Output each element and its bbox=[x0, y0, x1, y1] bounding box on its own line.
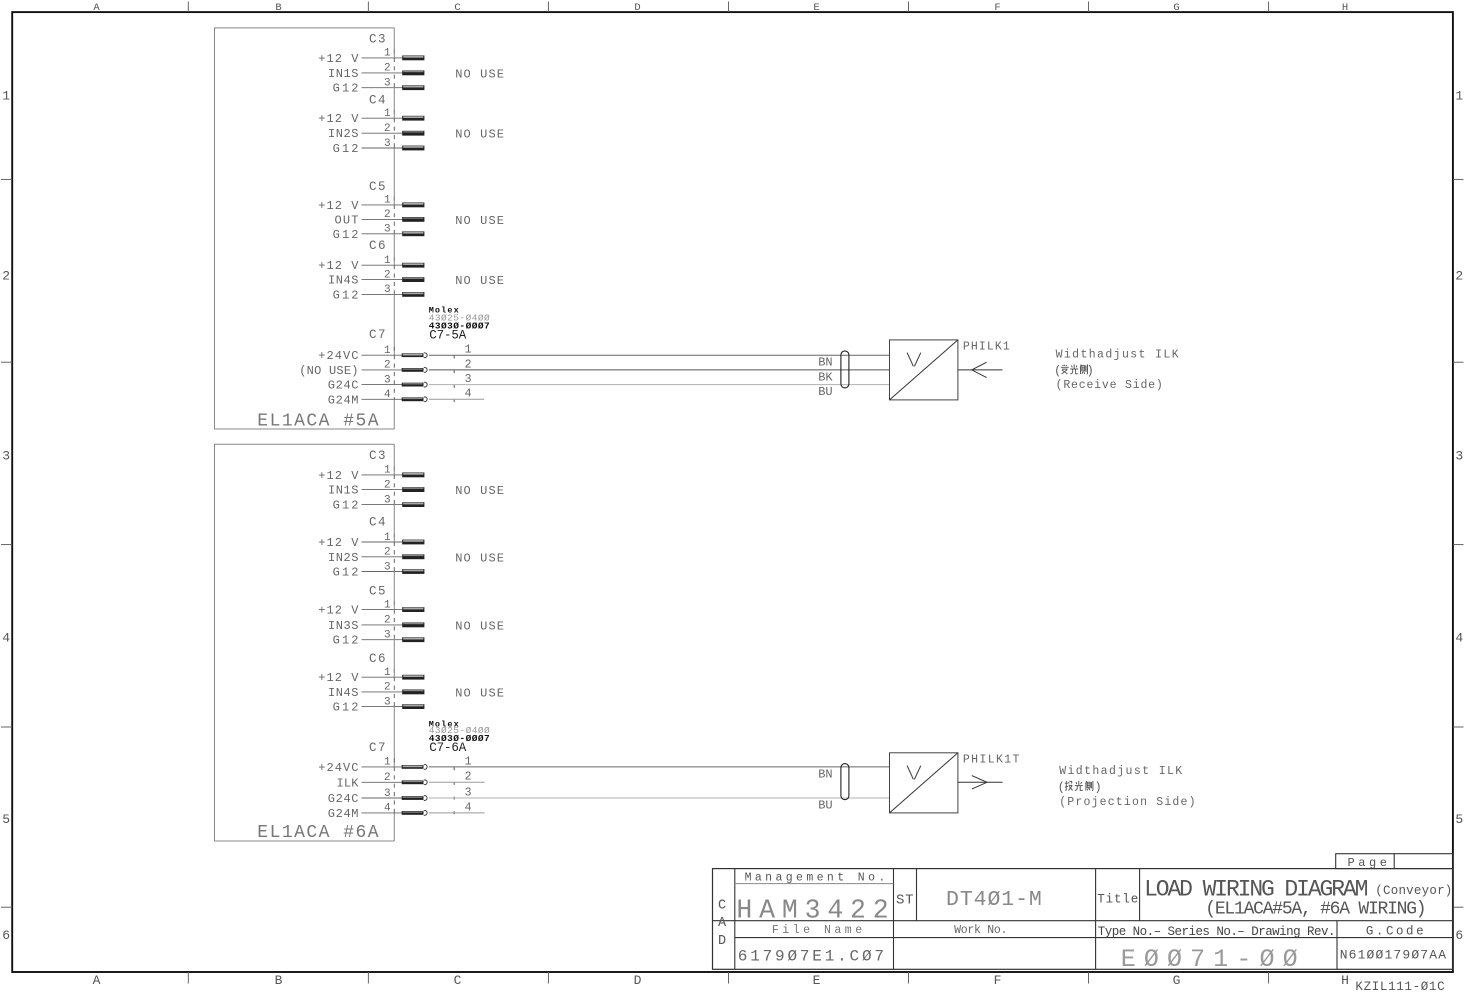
svg-text:ILK: ILK bbox=[337, 776, 360, 790]
EL1ACA#6A C7 pin 4 crimp terminal bbox=[402, 811, 424, 815]
svg-text:2: 2 bbox=[465, 771, 472, 784]
wire EL1ACA#5A C5 pin 3 bbox=[362, 233, 404, 235]
svg-text:D: D bbox=[634, 973, 642, 988]
wire EL1ACA#6A C7 pin 2 internal bbox=[362, 781, 403, 783]
svg-text:IN4S: IN4S bbox=[328, 686, 359, 700]
svg-text:KZIL111-Ø1C: KZIL111-Ø1C bbox=[1355, 980, 1444, 992]
svg-text:+12 V: +12 V bbox=[318, 671, 359, 685]
page box bbox=[1336, 854, 1453, 869]
svg-text:4: 4 bbox=[2, 631, 10, 646]
light beam arrow (Projection Side) bbox=[958, 776, 1003, 790]
wire C7-6A pin 3 bbox=[429, 797, 890, 799]
svg-text:HAM3422: HAM3422 bbox=[736, 896, 888, 926]
C7 device-side dashed edge bbox=[393, 347, 395, 400]
wire EL1ACA#6A C3 pin 2 bbox=[362, 489, 404, 491]
wire EL1ACA#5A C4 pin 2 bbox=[362, 132, 404, 134]
svg-text:(NO USE): (NO USE) bbox=[299, 364, 358, 378]
EL1ACA#5A C7 pin 4 crimp socket bbox=[424, 397, 427, 402]
svg-text:C7: C7 bbox=[369, 328, 386, 342]
svg-text:G: G bbox=[1173, 2, 1179, 14]
svg-text:+12 V: +12 V bbox=[318, 199, 359, 213]
title block grid bbox=[713, 869, 1453, 970]
svg-text:C4: C4 bbox=[369, 516, 386, 530]
EL1ACA#5A C7 pin 3 crimp terminal bbox=[402, 383, 424, 387]
wire EL1ACA#5A C5 pin 2 bbox=[362, 218, 404, 220]
svg-text:B: B bbox=[275, 2, 281, 14]
EL1ACA#5A C7 pin 2 crimp terminal bbox=[402, 368, 424, 372]
svg-text:G12: G12 bbox=[333, 142, 359, 156]
EL1ACA#5A C7 pin 4 crimp terminal bbox=[402, 397, 424, 401]
svg-text:G24M: G24M bbox=[328, 807, 359, 821]
wire EL1ACA#6A C4 pin 1 bbox=[362, 541, 404, 543]
svg-text:C3: C3 bbox=[369, 32, 386, 46]
light beam arrow (Receive Side) bbox=[958, 362, 1003, 377]
wire EL1ACA#6A C5 pin 1 bbox=[362, 609, 404, 611]
C4 connector dashed edge bbox=[393, 110, 395, 149]
wire EL1ACA#6A C7 pin 3 internal bbox=[362, 797, 403, 799]
svg-text:+24VC: +24VC bbox=[318, 761, 358, 775]
svg-text:3: 3 bbox=[465, 786, 472, 799]
EL1ACA#5A C3 pin 2 terminal pad bbox=[402, 71, 424, 76]
svg-text:C7-5A: C7-5A bbox=[429, 329, 466, 343]
svg-text:H: H bbox=[1342, 2, 1348, 14]
svg-text:NO USE: NO USE bbox=[455, 551, 504, 565]
svg-text:G12: G12 bbox=[333, 228, 359, 242]
EL1ACA#6A C7 pin 2 crimp terminal bbox=[402, 780, 424, 784]
svg-text:+12 V: +12 V bbox=[318, 469, 359, 483]
svg-text:C6: C6 bbox=[369, 239, 386, 253]
EL1ACA#6A C7 pin 3 crimp socket bbox=[424, 796, 427, 801]
wire EL1ACA#5A C7 pin 3 internal bbox=[362, 384, 403, 386]
svg-text:(: ( bbox=[1054, 365, 1061, 378]
svg-text:BK: BK bbox=[818, 370, 833, 384]
wire EL1ACA#6A C7 pin 1 internal bbox=[362, 766, 403, 768]
left row tick marks bbox=[1, 179, 12, 907]
svg-text:C: C bbox=[454, 973, 462, 988]
EL1ACA#6A C5 pin 1 terminal pad bbox=[402, 607, 424, 612]
svg-text:Type No.– Series No.– Drawing: Type No.– Series No.– Drawing Rev. bbox=[1098, 925, 1336, 939]
svg-text:3: 3 bbox=[2, 449, 10, 464]
svg-text:+12 V: +12 V bbox=[318, 604, 359, 618]
svg-text:D: D bbox=[634, 2, 640, 14]
svg-text:NO USE: NO USE bbox=[455, 686, 504, 700]
photo sensor PHILK1 V mark bbox=[907, 353, 921, 367]
svg-text:1: 1 bbox=[1455, 88, 1463, 103]
svg-text:F: F bbox=[994, 2, 1000, 14]
wire EL1ACA#6A C6 pin 1 bbox=[362, 676, 404, 678]
svg-text:1: 1 bbox=[2, 88, 10, 103]
svg-text:6: 6 bbox=[2, 928, 10, 943]
svg-text:C7: C7 bbox=[369, 741, 386, 755]
cable connector C7-6A dashed line bbox=[453, 767, 455, 816]
C7 device-side dashed edge bbox=[393, 758, 395, 813]
EL1ACA#5A C7 pin 1 crimp socket bbox=[424, 353, 427, 358]
svg-text:NO USE: NO USE bbox=[455, 484, 504, 498]
bottom column letters A-H bbox=[93, 973, 1349, 988]
svg-text:H: H bbox=[1341, 973, 1349, 988]
svg-text:C: C bbox=[454, 2, 460, 14]
svg-text:NO USE: NO USE bbox=[455, 214, 504, 228]
svg-text:N61ØØ179Ø7AA: N61ØØ179Ø7AA bbox=[1340, 948, 1446, 963]
svg-text:B: B bbox=[275, 973, 283, 988]
svg-text:A: A bbox=[93, 973, 101, 988]
left row numbers 1-6 bbox=[2, 88, 10, 943]
svg-text:G12: G12 bbox=[333, 499, 359, 513]
svg-text:D: D bbox=[718, 934, 726, 949]
C3 connector dashed edge bbox=[393, 466, 395, 505]
svg-text:LOAD WIRING DIAGRAM: LOAD WIRING DIAGRAM bbox=[1144, 876, 1368, 902]
EL1ACA#5A C7 pin 1 crimp terminal bbox=[402, 353, 424, 357]
wire EL1ACA#6A C6 pin 2 bbox=[362, 691, 404, 693]
EL1ACA#6A C3 pin 3 terminal pad bbox=[402, 502, 424, 507]
wire EL1ACA#6A C7 pin 4 internal bbox=[362, 812, 403, 814]
EL1ACA#5A C3 pin 1 terminal pad bbox=[402, 56, 424, 61]
svg-text:G12: G12 bbox=[333, 634, 359, 648]
svg-text:(Projection Side): (Projection Side) bbox=[1059, 796, 1195, 809]
cable connector C7-5A dashed line bbox=[453, 356, 455, 403]
EL1ACA#6A C5 pin 3 terminal pad bbox=[402, 637, 424, 642]
svg-text:C7-6A: C7-6A bbox=[429, 741, 466, 755]
EL1ACA#5A C6 pin 2 terminal pad bbox=[402, 277, 424, 282]
svg-text:): ) bbox=[1095, 781, 1102, 794]
wire EL1ACA#6A C5 pin 3 bbox=[362, 639, 404, 641]
svg-text:F: F bbox=[994, 973, 1002, 988]
svg-text:NO USE: NO USE bbox=[455, 67, 504, 81]
svg-text:5: 5 bbox=[1455, 812, 1463, 827]
wire EL1ACA#6A C3 pin 1 bbox=[362, 474, 404, 476]
EL1ACA#6A C7 pin 3 crimp terminal bbox=[402, 796, 424, 800]
EL1ACA#6A C3 pin 1 terminal pad bbox=[402, 473, 424, 478]
device EL1ACA #6A outline bbox=[215, 444, 395, 841]
svg-text:IN4S: IN4S bbox=[328, 274, 359, 288]
wire EL1ACA#6A C4 pin 3 bbox=[362, 571, 404, 573]
EL1ACA#6A C6 pin 1 terminal pad bbox=[402, 675, 424, 680]
svg-text:IN2S: IN2S bbox=[328, 551, 359, 565]
svg-text:Work No.: Work No. bbox=[954, 924, 1007, 937]
EL1ACA#5A C5 pin 3 terminal pad bbox=[402, 231, 424, 236]
wire EL1ACA#5A C3 pin 1 bbox=[362, 57, 404, 59]
EL1ACA#6A C4 pin 2 terminal pad bbox=[402, 554, 424, 559]
svg-text:Widthadjust ILK: Widthadjust ILK bbox=[1056, 349, 1179, 362]
EL1ACA#5A C6 pin 3 terminal pad bbox=[402, 292, 424, 297]
svg-text:G24C: G24C bbox=[328, 792, 359, 806]
svg-text:G12: G12 bbox=[333, 288, 359, 302]
EL1ACA#5A C4 pin 1 terminal pad bbox=[402, 116, 424, 121]
EL1ACA#5A C4 pin 3 terminal pad bbox=[402, 146, 424, 151]
svg-text:+12 V: +12 V bbox=[318, 112, 359, 126]
svg-text:(Conveyor): (Conveyor) bbox=[1375, 884, 1452, 898]
svg-text:2: 2 bbox=[2, 269, 10, 284]
svg-text:C5: C5 bbox=[369, 180, 386, 194]
svg-text:4: 4 bbox=[465, 801, 472, 814]
svg-text:+24VC: +24VC bbox=[318, 349, 358, 363]
EL1ACA#5A C7 pin 2 crimp socket bbox=[424, 368, 427, 373]
C6 connector dashed edge bbox=[393, 669, 395, 707]
svg-text:C3: C3 bbox=[369, 449, 386, 463]
EL1ACA#6A C7 pin 1 crimp terminal bbox=[402, 765, 424, 769]
photo sensor PHILK1 diagonal bbox=[890, 340, 958, 400]
svg-text:ST: ST bbox=[896, 893, 914, 909]
svg-text:6: 6 bbox=[1455, 928, 1463, 943]
wire C7-6A pin 1 bbox=[429, 766, 890, 768]
caption japanese (Projection Side) bbox=[1058, 781, 1102, 794]
device EL1ACA #5A outline bbox=[215, 28, 395, 429]
device EL1ACA #5A right edge segments bbox=[393, 28, 395, 429]
svg-text:6179Ø7E1.CØ7: 6179Ø7E1.CØ7 bbox=[738, 947, 884, 965]
wire EL1ACA#5A C6 pin 1 bbox=[362, 264, 404, 266]
svg-text:(EL1ACA#5A, #6A WIRING): (EL1ACA#5A, #6A WIRING) bbox=[1205, 899, 1426, 919]
wire EL1ACA#5A C4 pin 1 bbox=[362, 117, 404, 119]
EL1ACA#6A C7 pin 4 crimp socket bbox=[424, 811, 427, 816]
svg-text:C: C bbox=[718, 898, 726, 913]
svg-text:4: 4 bbox=[465, 388, 472, 401]
wire C7-5A pin 3 bbox=[429, 384, 890, 386]
wire EL1ACA#6A C6 pin 3 bbox=[362, 706, 404, 708]
wire EL1ACA#6A C5 pin 2 bbox=[362, 624, 404, 626]
EL1ACA#5A C6 pin 1 terminal pad bbox=[402, 263, 424, 268]
svg-text:G.Code: G.Code bbox=[1366, 924, 1424, 938]
wire C7-6A pin 4 bbox=[429, 812, 485, 814]
svg-text:G24C: G24C bbox=[328, 379, 359, 393]
EL1ACA#6A C4 pin 1 terminal pad bbox=[402, 540, 424, 545]
svg-text:1: 1 bbox=[465, 755, 472, 768]
svg-text:BN: BN bbox=[818, 767, 832, 781]
svg-text:BU: BU bbox=[818, 385, 832, 399]
EL1ACA#5A C5 pin 2 terminal pad bbox=[402, 217, 424, 222]
wire EL1ACA#5A C7 pin 2 internal bbox=[362, 369, 403, 371]
top column letters A-H bbox=[93, 2, 1348, 14]
svg-text:5: 5 bbox=[2, 812, 10, 827]
wire EL1ACA#6A C3 pin 3 bbox=[362, 504, 404, 506]
svg-text:BN: BN bbox=[818, 356, 832, 370]
photo sensor PHILK1T diagonal bbox=[890, 753, 958, 813]
svg-text:File Name: File Name bbox=[772, 924, 862, 937]
svg-text:1: 1 bbox=[465, 344, 472, 357]
wire C7-5A pin 1 bbox=[429, 354, 890, 356]
C6 connector dashed edge bbox=[393, 257, 395, 295]
wire EL1ACA#5A C3 pin 2 bbox=[362, 72, 404, 74]
EL1ACA#6A C3 pin 2 terminal pad bbox=[402, 487, 424, 492]
svg-text:(: ( bbox=[1058, 781, 1065, 794]
svg-text:A: A bbox=[93, 2, 100, 14]
svg-text:OUT: OUT bbox=[335, 213, 359, 227]
svg-text:G12: G12 bbox=[333, 82, 359, 96]
CAD vertical label bbox=[718, 898, 727, 949]
svg-text:EL1ACA #6A: EL1ACA #6A bbox=[257, 823, 378, 843]
svg-text:Title: Title bbox=[1097, 892, 1138, 906]
wire C7-5A pin 2 bbox=[429, 369, 890, 371]
bottom column tick marks bbox=[188, 972, 1268, 984]
svg-text:3: 3 bbox=[1455, 449, 1463, 464]
svg-text:G24M: G24M bbox=[328, 393, 359, 407]
C3 connector dashed edge bbox=[393, 49, 395, 88]
svg-text:PHILK1T: PHILK1T bbox=[963, 753, 1020, 766]
svg-text:G12: G12 bbox=[333, 701, 359, 715]
EL1ACA#6A C6 pin 3 terminal pad bbox=[402, 704, 424, 709]
wire EL1ACA#5A C7 pin 4 internal bbox=[362, 398, 403, 400]
svg-text:Widthadjust ILK: Widthadjust ILK bbox=[1059, 765, 1182, 778]
EL1ACA#6A C5 pin 2 terminal pad bbox=[402, 623, 424, 628]
wire EL1ACA#5A C5 pin 1 bbox=[362, 204, 404, 206]
svg-text:NO USE: NO USE bbox=[455, 128, 504, 142]
device EL1ACA #6A right edge segments bbox=[393, 444, 395, 841]
C5 connector dashed edge bbox=[393, 601, 395, 640]
EL1ACA#6A C7 pin 1 crimp socket bbox=[424, 764, 427, 769]
svg-text:IN1S: IN1S bbox=[328, 484, 359, 498]
C4 connector dashed edge bbox=[393, 534, 395, 573]
svg-text:2: 2 bbox=[465, 358, 472, 371]
cable bundle marker for EL1ACA#5A bbox=[841, 351, 849, 388]
C5 connector dashed edge bbox=[393, 196, 395, 234]
EL1ACA#5A C7 pin 3 crimp socket bbox=[424, 382, 427, 387]
photo sensor PHILK1 box bbox=[890, 340, 958, 400]
top column tick marks bbox=[188, 2, 1268, 13]
svg-text:PHILK1: PHILK1 bbox=[963, 340, 1010, 353]
svg-text:NO USE: NO USE bbox=[455, 274, 504, 288]
svg-text:BU: BU bbox=[818, 798, 832, 812]
svg-text:3: 3 bbox=[465, 373, 472, 386]
wire EL1ACA#5A C3 pin 3 bbox=[362, 87, 404, 89]
caption japanese (Receive Side) bbox=[1054, 364, 1094, 377]
svg-text:E: E bbox=[813, 2, 819, 14]
svg-text:(Receive Side): (Receive Side) bbox=[1056, 379, 1163, 392]
svg-text:C5: C5 bbox=[369, 584, 386, 598]
EL1ACA#6A C6 pin 2 terminal pad bbox=[402, 690, 424, 695]
EL1ACA#5A C3 pin 3 terminal pad bbox=[402, 85, 424, 90]
svg-text:+12 V: +12 V bbox=[318, 259, 359, 273]
svg-text:2: 2 bbox=[1455, 269, 1463, 284]
right row numbers 1-6 bbox=[1455, 88, 1463, 943]
wire EL1ACA#5A C6 pin 3 bbox=[362, 293, 404, 295]
wire C7-6A pin 2 bbox=[429, 781, 485, 783]
wire EL1ACA#5A C4 pin 3 bbox=[362, 147, 404, 149]
EL1ACA#6A C4 pin 3 terminal pad bbox=[402, 569, 424, 574]
EL1ACA#5A C4 pin 2 terminal pad bbox=[402, 131, 424, 136]
svg-text:IN2S: IN2S bbox=[328, 127, 359, 141]
svg-text:+12 V: +12 V bbox=[318, 52, 359, 66]
svg-text:+12 V: +12 V bbox=[318, 536, 359, 550]
svg-text:DT4Ø1-M: DT4Ø1-M bbox=[946, 888, 1042, 912]
EL1ACA#5A C5 pin 1 terminal pad bbox=[402, 203, 424, 208]
svg-text:4: 4 bbox=[1455, 631, 1463, 646]
svg-text:G12: G12 bbox=[333, 566, 359, 580]
wire EL1ACA#5A C7 pin 1 internal bbox=[362, 354, 403, 356]
photo sensor PHILK1T V mark bbox=[907, 766, 921, 780]
right row tick marks bbox=[1453, 179, 1464, 907]
svg-text:A: A bbox=[718, 916, 727, 931]
svg-text:): ) bbox=[1087, 365, 1094, 378]
svg-text:IN1S: IN1S bbox=[328, 67, 359, 81]
svg-text:IN3S: IN3S bbox=[328, 619, 359, 633]
title line 1 bbox=[1144, 876, 1452, 902]
svg-text:E: E bbox=[813, 973, 821, 988]
cable bundle marker for EL1ACA#6A bbox=[841, 764, 849, 800]
EL1ACA#6A C7 pin 2 crimp socket bbox=[424, 780, 427, 785]
svg-text:C6: C6 bbox=[369, 652, 386, 666]
svg-text:NO USE: NO USE bbox=[455, 619, 504, 633]
wire EL1ACA#6A C4 pin 2 bbox=[362, 556, 404, 558]
photo sensor PHILK1T box bbox=[890, 753, 958, 813]
svg-text:Management No.: Management No. bbox=[745, 872, 886, 885]
svg-text:G: G bbox=[1173, 973, 1181, 988]
wire C7-5A pin 4 bbox=[429, 398, 484, 400]
svg-text:Page: Page bbox=[1348, 856, 1387, 870]
svg-text:C4: C4 bbox=[369, 93, 386, 107]
svg-text:EL1ACA #5A: EL1ACA #5A bbox=[257, 411, 378, 431]
wire EL1ACA#5A C6 pin 2 bbox=[362, 279, 404, 281]
